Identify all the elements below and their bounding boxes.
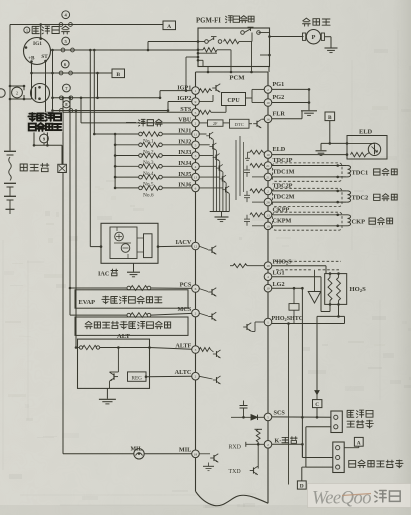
svg-text:ST: ST	[41, 54, 48, 60]
svg-text:19: 19	[266, 224, 270, 228]
svg-text:P: P	[312, 34, 316, 41]
svg-text:TDC2M: TDC2M	[273, 194, 295, 201]
relay coil 2	[203, 48, 217, 52]
wire: IAC to IACV pin	[157, 245, 160, 248]
wire: +B drop	[31, 62, 33, 100]
svg-text:2: 2	[195, 375, 197, 379]
svg-text:4: 4	[267, 275, 269, 279]
wire: CPU to PG pins	[246, 97, 253, 99]
fuse No.5	[61, 48, 65, 52]
wire: PHO2SHTC heater line	[272, 323, 345, 325]
relay contact 2	[205, 40, 209, 44]
svg-text:LG1: LG1	[273, 270, 285, 277]
svg-text:13: 13	[194, 176, 198, 180]
wire: PG1 to ground	[272, 88, 309, 90]
svg-text:IG1: IG1	[33, 41, 42, 47]
fuse number 8	[63, 101, 70, 108]
label: battery	[20, 164, 27, 171]
ground (ALT)	[106, 388, 108, 398]
REG regulator box	[117, 348, 119, 365]
wire: IGP1 feed	[159, 91, 161, 98]
fuse No.6	[59, 71, 63, 75]
svg-text:CKP: CKP	[352, 219, 366, 226]
ground (PG)	[301, 110, 317, 112]
svg-text:MIL: MIL	[179, 447, 191, 454]
svg-text:PG2: PG2	[273, 94, 285, 101]
wire: K-line external	[272, 443, 303, 445]
svg-text:28: 28	[266, 201, 270, 205]
svg-text:C: C	[315, 402, 319, 408]
ignition switch SW1	[24, 38, 51, 65]
ground (IAC)	[133, 263, 135, 271]
fusible link circle 2	[12, 87, 23, 98]
transistor Q-flr	[253, 119, 261, 128]
injector No.3 coil	[114, 154, 117, 157]
label: fuel pump	[303, 18, 311, 26]
svg-text:TXD: TXD	[229, 469, 242, 475]
alternator field coil	[76, 347, 80, 349]
wire: loop top	[10, 85, 24, 87]
wire: to battery connector	[61, 145, 63, 164]
injector No.1 coil	[114, 133, 117, 136]
fuse number 4	[62, 11, 70, 19]
svg-text:RXD: RXD	[229, 444, 242, 450]
wire: to shield ground	[320, 143, 322, 150]
IAC coil bar	[144, 234, 153, 258]
wire: IAC supply	[100, 245, 103, 248]
svg-text:ELD: ELD	[359, 128, 373, 135]
capacitor (SCS internal)	[243, 401, 245, 406]
battery (xu dian chi)	[4, 150, 16, 152]
injector No.2 coil	[114, 144, 117, 147]
resistor (CKP internal)	[250, 213, 263, 217]
wire: bus7 with fuse 7	[53, 97, 161, 99]
wire: ALTF	[150, 348, 192, 350]
svg-text:12: 12	[194, 245, 198, 249]
engine mount control solenoid valve	[70, 314, 127, 316]
wire: LG1	[272, 276, 321, 278]
wire: SCS to service connector	[272, 416, 331, 418]
svg-text:16: 16	[266, 117, 270, 121]
wire: H1 to switch IG1 terminal	[40, 25, 42, 39]
resistor + transistor (ALTF internal)	[199, 348, 210, 352]
svg-text:B: B	[328, 115, 332, 121]
IAC internal motor 1	[115, 232, 124, 241]
shield around CKP wires	[273, 212, 343, 230]
wire: drop fuse6 to bus7	[97, 73, 99, 98]
wire: K-line to pin	[251, 443, 264, 445]
svg-text:HO2S: HO2S	[350, 286, 367, 293]
svg-text:ELD: ELD	[273, 146, 286, 153]
svg-text:2: 2	[267, 189, 269, 193]
wire: ALTC	[146, 375, 192, 378]
svg-text:IGP2: IGP2	[177, 95, 191, 102]
ground (injector drivers)	[215, 216, 229, 218]
svg-text:5: 5	[267, 415, 269, 419]
wire: heater to connector C	[317, 315, 339, 317]
rail: injector supply	[93, 50, 95, 134]
wire: to connector D	[302, 466, 306, 468]
fuse No.8	[59, 109, 63, 113]
wire: VBU feed	[80, 98, 82, 123]
wire: FLR to ground	[272, 118, 302, 120]
ground (fuel pump)	[325, 47, 338, 49]
CKP sensor coil	[348, 215, 351, 226]
transistor Q-alt	[110, 372, 119, 381]
svg-text:13: 13	[266, 213, 270, 217]
svg-text:4: 4	[195, 165, 197, 169]
starter motor M	[31, 84, 50, 103]
fuse No.7	[59, 96, 63, 100]
wire: top bus H1 (battery hot)	[10, 24, 163, 26]
svg-text:21: 21	[266, 164, 270, 168]
svg-text:PCM: PCM	[229, 75, 245, 82]
WeeQoo watermark	[308, 484, 411, 508]
svg-text:LG2: LG2	[273, 281, 285, 288]
svg-text:19: 19	[266, 264, 270, 268]
svg-text:10: 10	[266, 153, 270, 157]
svg-text:18: 18	[194, 452, 198, 456]
shield drain + chassis ground triangle	[314, 270, 316, 292]
starter solenoid block (bold label)	[27, 112, 64, 132]
svg-text:DTC: DTC	[235, 122, 244, 127]
EVAP purge control solenoid valve	[70, 287, 127, 289]
svg-text:PCS: PCS	[180, 281, 192, 288]
resistor (IGP1 internal)	[199, 89, 211, 93]
battery terminal connector (boxed X)	[58, 164, 67, 172]
rail: ALT supply	[75, 111, 77, 348]
svg-text:ALTC: ALTC	[175, 369, 192, 376]
svg-text:10: 10	[266, 287, 270, 291]
connector marker B (right)	[325, 112, 335, 121]
label: data link connector	[349, 461, 356, 468]
transistor (ALTC internal)	[213, 376, 221, 384]
IAC internal motor 2	[121, 244, 130, 253]
label: fuel injectors	[126, 122, 136, 124]
TDC2 sensor pair wires	[272, 190, 346, 192]
fusible link circle 1 (clipped)	[0, 89, 5, 97]
DTC box	[230, 119, 250, 128]
wire: relay terminal to IGP1 node	[186, 56, 198, 58]
diode arrow (SCS internal)	[231, 416, 251, 418]
fuel pump P	[303, 33, 306, 40]
connector marker D	[297, 481, 306, 489]
capacitor block	[289, 304, 299, 311]
resistor (TDC1 internal)	[250, 164, 263, 168]
svg-text:6: 6	[195, 287, 197, 291]
wire: C to SCS line	[316, 408, 318, 418]
svg-text:IGP1: IGP1	[177, 84, 191, 91]
shield around TDC2 wires	[273, 188, 343, 206]
svg-text:B: B	[116, 72, 120, 78]
relay coil 1	[224, 39, 240, 43]
svg-text:MCS: MCS	[178, 306, 192, 313]
svg-text:WeeQoo: WeeQoo	[312, 489, 371, 509]
shield around TDC1 wires	[273, 163, 343, 181]
svg-text:3: 3	[195, 154, 197, 158]
arrowhead	[315, 391, 319, 395]
injector No.6 coil	[114, 187, 117, 190]
svg-text:CPU: CPU	[227, 98, 240, 104]
faint bleed-through texture (decorative)	[10, 285, 23, 286]
svg-text:5: 5	[195, 111, 197, 115]
IAC valve box	[101, 223, 158, 263]
svg-text:TDC2: TDC2	[352, 195, 369, 202]
MIL warning lamp	[134, 449, 144, 459]
wire: PG2 to ground	[272, 102, 309, 104]
svg-text:3: 3	[195, 348, 197, 352]
injector driver transistors	[199, 133, 206, 135]
wire: internal bus	[235, 140, 237, 200]
service check connector box	[331, 411, 342, 433]
wire: H2 IG1 feed with fuse 5	[51, 49, 199, 51]
svg-text:2: 2	[267, 88, 269, 92]
CKP sensor pair wires	[272, 214, 346, 216]
connector marker C	[313, 400, 322, 408]
transistor (heater driver)	[243, 323, 251, 332]
wire: battery rail x10	[9, 25, 11, 151]
wire: MIL lamp circuit	[63, 453, 192, 455]
svg-text:REG: REG	[132, 375, 143, 381]
wire: ELD pin to ELD box	[272, 154, 347, 156]
wire: H3 fuse-6 bus to connector B	[32, 72, 113, 74]
rail: IAC supply	[89, 50, 91, 247]
resistor (TDC2 internal)	[250, 189, 263, 193]
svg-text:A: A	[167, 24, 171, 30]
wire: relay right edge to PCM corner	[268, 67, 270, 73]
ground (ELD)	[316, 150, 327, 152]
wire: STS line from ST terminal	[45, 61, 47, 112]
svg-text:PGM-FI: PGM-FI	[196, 17, 221, 24]
svg-text:2: 2	[16, 91, 18, 96]
data link connector box	[333, 442, 344, 473]
wire: relay to fuel pump	[270, 36, 304, 38]
connector marker A (bottom)	[354, 437, 363, 446]
resistor (ELD internal)	[250, 150, 263, 154]
wire: service pin2 to data pin3	[306, 426, 331, 428]
connector marker B (left)	[112, 69, 125, 78]
HO2S heated oxygen sensor box	[325, 274, 347, 305]
wire: IGP2 feed	[167, 102, 169, 111]
svg-text:PHO2S: PHO2S	[273, 259, 293, 266]
ground bus down right side	[301, 288, 303, 457]
svg-text:No.6: No.6	[143, 193, 154, 199]
svg-text:SCS: SCS	[274, 410, 286, 417]
label: service check connector	[347, 410, 354, 417]
fuse number 7	[63, 84, 71, 92]
PCM (ECU) box	[196, 71, 269, 73]
wire: IGP2 to base rail	[199, 101, 213, 103]
svg-text:VBU: VBU	[178, 117, 192, 124]
wire: bus8 with fuse 8	[53, 110, 169, 112]
label: ignition switch (dian huo kai guan)	[24, 27, 30, 33]
fuse number 6	[61, 60, 69, 68]
svg-text:2: 2	[267, 443, 269, 447]
svg-text:TDC1: TDC1	[352, 169, 369, 176]
svg-text:3: 3	[26, 29, 28, 33]
wire: loop bottom	[10, 98, 32, 100]
wire: PHO2S to HO2S box	[272, 265, 326, 267]
injector No.5 coil	[114, 176, 117, 179]
ELD sensor element	[368, 143, 380, 155]
svg-text:6: 6	[195, 186, 197, 190]
alternator box	[78, 339, 150, 388]
resistor (PHO2S internal)	[233, 264, 247, 268]
svg-text:K-: K-	[275, 437, 282, 444]
connector marker A (to fuel pump circuit)	[163, 21, 176, 30]
wire: injector rail	[114, 134, 116, 188]
svg-text:IAC: IAC	[98, 270, 109, 277]
svg-text:1: 1	[195, 89, 197, 93]
CPU box U1	[222, 93, 246, 106]
wire: LG2 to ground bus	[272, 287, 303, 289]
svg-text:STS: STS	[180, 106, 192, 113]
K-line pull-up resistor	[255, 428, 263, 430]
svg-text:11: 11	[194, 133, 198, 137]
PGM-FI main relay box	[198, 28, 270, 67]
transistor Q-mcs	[208, 312, 216, 321]
transistor + ground (MIL internal)	[210, 454, 218, 463]
wire: internal bus3	[243, 142, 245, 192]
TDC1 sensor coil	[348, 166, 351, 177]
wire: loop stub	[23, 86, 25, 90]
svg-text:5: 5	[195, 143, 197, 147]
svg-text:D: D	[300, 484, 304, 490]
rail: MIL supply	[62, 98, 64, 454]
unknown long wire	[288, 324, 290, 485]
wire: below starter block	[34, 144, 62, 146]
injector No.4 coil	[114, 165, 117, 168]
svg-text:A: A	[357, 441, 361, 447]
svg-text:2: 2	[195, 312, 197, 316]
wire: relay to PCM stubs	[207, 67, 209, 73]
svg-text:FLR: FLR	[273, 110, 286, 117]
relay contact 1	[241, 31, 245, 35]
wire: ELD box top feed	[321, 142, 347, 144]
fuse number 5	[62, 37, 70, 45]
VBU internal fuse box	[199, 122, 207, 124]
svg-text:21: 21	[266, 175, 270, 179]
svg-text:1: 1	[267, 321, 269, 325]
svg-text:PHO2SHTC: PHO2SHTC	[272, 316, 304, 322]
fuse number 9	[40, 134, 49, 143]
svg-text:10: 10	[266, 101, 270, 105]
transistor Q-igp	[212, 84, 220, 93]
svg-text:TDC1M: TDC1M	[273, 168, 295, 175]
TDC2 sensor coil	[348, 191, 351, 202]
PCM torn bottom edge	[196, 491, 269, 505]
TDC1 sensor pair wires	[272, 165, 346, 167]
transistor Q-iacv	[208, 246, 216, 255]
wire: fuse feed drop	[52, 50, 54, 111]
svg-text:IACV: IACV	[175, 239, 191, 246]
rail: solenoid supply	[69, 98, 71, 315]
wire: B to ELD box	[329, 121, 331, 144]
svg-text:MIL: MIL	[131, 446, 143, 452]
svg-text:PG1: PG1	[273, 81, 285, 88]
svg-text:9: 9	[195, 100, 197, 104]
shield (PHO2S)	[276, 260, 341, 262]
wire: relay feed from H2	[147, 42, 149, 51]
svg-text:2F: 2F	[213, 121, 218, 126]
wire: internal bus2	[239, 136, 241, 196]
transistor Q-pcs	[208, 288, 216, 297]
svg-text:EVAP: EVAP	[79, 299, 96, 306]
resistor (STS internal)	[199, 110, 211, 114]
wire: relay internal drop	[230, 50, 232, 67]
svg-text:2: 2	[195, 121, 197, 125]
fuse No.4	[59, 23, 63, 27]
wire: pump to ground	[325, 36, 332, 38]
svg-text:CKPM: CKPM	[273, 217, 292, 224]
